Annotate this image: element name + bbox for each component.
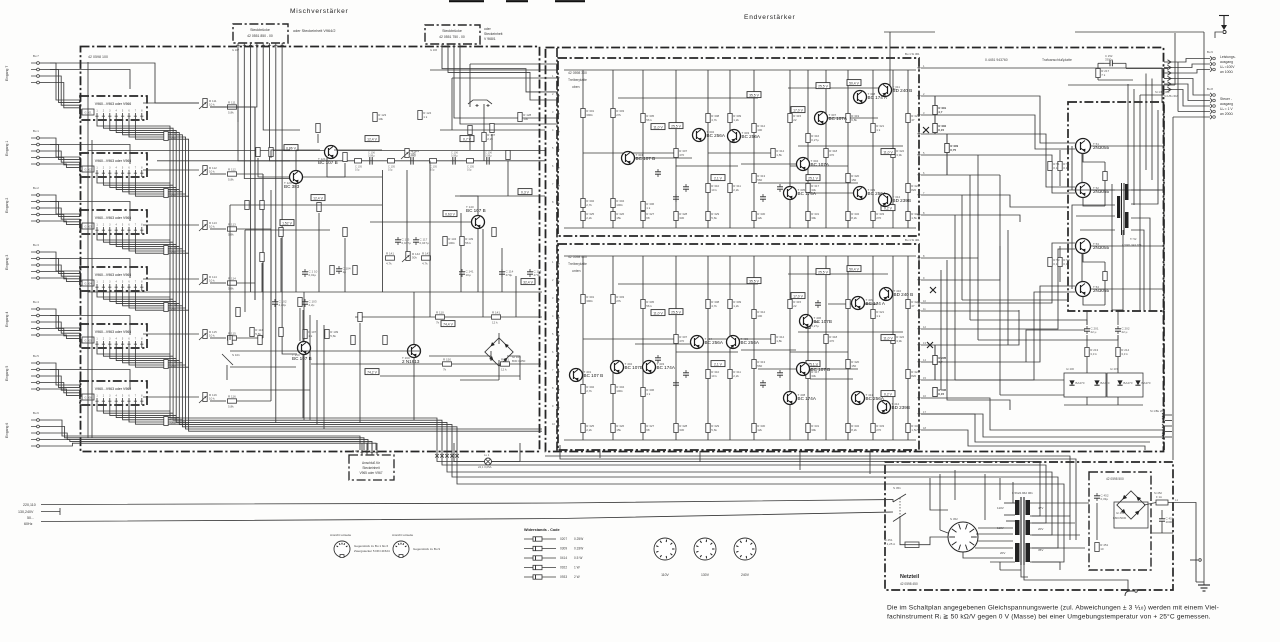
resistor R303 0.75 [945, 134, 959, 175]
svg-text:100: 100 [523, 117, 528, 121]
resistor R716 5.8k [228, 394, 237, 408]
svg-text:St 1/Bu 201: St 1/Bu 201 [1150, 409, 1165, 413]
svg-text:R 114: R 114 [228, 276, 236, 280]
svg-text:560: 560 [757, 364, 762, 368]
svg-text:1,5k: 1,5k [911, 216, 917, 220]
wire transformer taps [1068, 110, 1164, 311]
wire output stage links [1072, 146, 1164, 310]
svg-text:G 108: G 108 [352, 449, 360, 453]
svg-text:25,5 V: 25,5 V [818, 270, 829, 274]
svg-text:B30 C250: B30 C250 [512, 359, 526, 363]
wire mixer lower [230, 351, 520, 380]
svg-text:10 k: 10 k [209, 279, 215, 283]
svg-text:20V: 20V [1000, 551, 1005, 555]
board Treiberplatte oben 42 0598 300 [558, 58, 919, 236]
plug-in unit box V960/V963/V966 group 2 [80, 153, 147, 177]
level pot R116 10k [199, 393, 217, 404]
svg-text:220,110: 220,110 [23, 503, 36, 507]
wire rails driver board oben [564, 70, 916, 228]
plug jog symbol [468, 100, 492, 107]
page cut line top [449, 0, 585, 2]
svg-text:2,2k: 2,2k [487, 137, 493, 141]
module box Endverstaerker [546, 48, 1164, 452]
wire fan-in input group 1 [50, 138, 130, 167]
resistor R127 2.2k [482, 104, 496, 161]
resistor R205 4.7 [933, 345, 947, 380]
svg-text:BC 256A: BC 256A [741, 340, 760, 345]
wire bus y292 [88, 291, 542, 293]
svg-text:0.33W: 0.33W [574, 547, 583, 551]
svg-text:39k: 39k [811, 428, 816, 432]
svg-text:0,01µ: 0,01µ [309, 273, 317, 277]
svg-text:Uₐ =100V: Uₐ =100V [1220, 65, 1235, 69]
diode block BA470 [1064, 367, 1151, 397]
svg-text:35V: 35V [1038, 548, 1043, 552]
svg-text:130V: 130V [701, 573, 710, 577]
svg-text:0933: 0933 [560, 575, 567, 579]
connector Bu1 St301 pins [905, 52, 925, 217]
svg-text:240V: 240V [741, 573, 750, 577]
svg-text:42 0598 450: 42 0598 450 [900, 582, 918, 586]
svg-text:BC 174A: BC 174A [798, 191, 817, 196]
wire bundle from V-box 5 [97, 348, 189, 424]
svg-text:3,9k: 3,9k [896, 153, 902, 157]
resistor R214 3.3k [1085, 348, 1099, 357]
svg-text:Bu 5: Bu 5 [33, 354, 39, 358]
protection box right column [1163, 311, 1165, 450]
transistor T 304 BC 107A [797, 158, 830, 171]
svg-text:BA470: BA470 [1100, 381, 1109, 385]
svg-text:R 115: R 115 [228, 331, 236, 335]
wire bundle from V-box 1 [97, 120, 189, 196]
resistor R104 220k [164, 303, 178, 312]
svg-text:oder Steckeinheit V964/2: oder Steckeinheit V964/2 [293, 29, 335, 33]
wire top right runs [1068, 32, 1204, 585]
svg-text:68: 68 [646, 216, 650, 220]
resistor R111 12k [492, 310, 501, 324]
svg-text:BC 256A: BC 256A [705, 340, 724, 345]
wire selector to transformer [963, 528, 1013, 558]
emitter resistors output [1048, 162, 1060, 267]
svg-text:0,33µ: 0,33µ [1101, 497, 1109, 501]
svg-text:10µ: 10µ [430, 168, 435, 172]
svg-text:560: 560 [757, 178, 762, 182]
svg-text:R 151: R 151 [501, 357, 509, 361]
svg-text:10 k: 10 k [209, 334, 215, 338]
voltage callout 0.63V [443, 211, 457, 217]
svg-text:F 1A: F 1A [1156, 495, 1162, 499]
resistor R109 5.6k [325, 330, 339, 339]
svg-text:St 1/Bu 302: St 1/Bu 302 [1164, 94, 1178, 98]
svg-text:2,2k: 2,2k [586, 216, 592, 220]
svg-text:25,5 V: 25,5 V [818, 84, 829, 88]
pins left edge board unten [552, 260, 560, 428]
transistor T 410 BD 240 B [880, 288, 914, 301]
svg-text:820: 820 [911, 188, 916, 192]
svg-text:68: 68 [646, 428, 650, 432]
svg-text:Netzteil: Netzteil [900, 574, 920, 580]
voltage callout 12.4V [365, 369, 379, 375]
svg-text:BC 107 B: BC 107 B [466, 208, 486, 213]
svg-text:S 451: S 451 [893, 486, 901, 490]
wire bus y160 [157, 160, 545, 162]
resistor R110 7k [436, 310, 445, 324]
svg-text:1 k: 1 k [646, 206, 651, 210]
transistor T121 BC107B [318, 146, 338, 166]
mixer resistor scatter 2 [228, 266, 387, 345]
svg-text:1µ: 1µ [343, 270, 347, 274]
svg-text:R 110: R 110 [436, 310, 444, 314]
bridge rectifier Gl101 B30C250 [485, 338, 526, 366]
transistor T 411 BC 256A [852, 392, 885, 405]
svg-text:BC 383: BC 383 [284, 184, 300, 189]
svg-text:ausgang: ausgang [1220, 60, 1233, 64]
capacitor C104 1u [336, 266, 351, 274]
transistor T 401 BC 107 B [570, 369, 604, 382]
svg-text:Bu 1 St 401: Bu 1 St 401 [905, 238, 920, 242]
svg-text:12k: 12k [757, 428, 762, 432]
svg-text:50...: 50... [27, 516, 34, 520]
wire fan-in input group 2 [50, 195, 130, 224]
svg-text:Leistungs-: Leistungs- [1220, 55, 1236, 59]
svg-text:Steckeinheit: Steckeinheit [362, 466, 379, 470]
svg-text:0,08µ: 0,08µ [451, 154, 458, 158]
pins of Anschluss box [360, 450, 378, 455]
svg-text:8,2k: 8,2k [851, 216, 857, 220]
wire row 5 to level pot [143, 300, 263, 338]
svg-text:10 k: 10 k [209, 170, 215, 174]
svg-text:Bu 7: Bu 7 [33, 54, 39, 58]
title Endverstaerker [744, 14, 795, 21]
svg-text:L1: L1 [1175, 498, 1179, 502]
wire mesh driver board unten [583, 256, 908, 440]
wire row 3 to level pot [143, 225, 271, 300]
svg-text:BC 107B: BC 107B [625, 365, 643, 370]
svg-text:2,2k: 2,2k [733, 188, 739, 192]
plug bridge Steckbruecke 42 0551 850-00 [233, 24, 335, 43]
transistor T160 2N1613 [402, 345, 421, 365]
svg-text:60Hz: 60Hz [24, 522, 33, 526]
mains wire L2 [41, 512, 893, 522]
module box Netzteil 42 0598 450 [885, 462, 1173, 590]
svg-text:22 µ: 22 µ [1122, 330, 1128, 334]
svg-text:24,1 0,05A: 24,1 0,05A [478, 465, 492, 469]
svg-text:0,27µ: 0,27µ [811, 138, 819, 142]
svg-text:1 k: 1 k [423, 115, 428, 119]
svg-text:4,7k: 4,7k [422, 262, 428, 266]
voltage callouts driver board oben [651, 80, 895, 211]
svg-text:390k: 390k [586, 113, 593, 117]
wire netzteil verticals [930, 470, 1013, 533]
transistor T52 2N3055 [1076, 183, 1110, 198]
wire transformer right taps [1030, 503, 1089, 570]
svg-text:1 k: 1 k [646, 392, 651, 396]
resistor R139 56k [460, 237, 474, 246]
svg-text:10µ: 10µ [467, 168, 472, 172]
svg-text:Steckeinheit: Steckeinheit [484, 32, 503, 36]
wire fan-in input group 5 [50, 363, 130, 395]
transistor T54 2N3055 [1076, 282, 1110, 297]
svg-text:470: 470 [829, 339, 834, 343]
svg-text:100k: 100k [616, 389, 623, 393]
svg-text:2,2k: 2,2k [733, 374, 739, 378]
input connector Bu3 Eingang 3 [5, 243, 50, 279]
svg-text:10 k: 10 k [711, 188, 717, 192]
svg-text:0,15: 0,15 [938, 392, 944, 396]
capacitor C141 10u [459, 269, 474, 277]
svg-text:50k: 50k [412, 256, 417, 260]
wire rails driver board unten [564, 256, 916, 440]
svg-text:8,2k: 8,2k [851, 428, 857, 432]
wire transformer bottom [1000, 562, 1128, 590]
legend selector view 240V [734, 538, 756, 577]
svg-text:0,047µ: 0,047µ [402, 241, 412, 245]
svg-text:11,0 V: 11,0 V [883, 336, 893, 340]
svg-text:42 0551 850 - 00: 42 0551 850 - 00 [247, 34, 273, 38]
svg-text:4,7k: 4,7k [711, 118, 717, 122]
text Trafoanschlussplatte [1042, 58, 1072, 62]
svg-text:390k: 390k [586, 299, 593, 303]
svg-text:10k: 10k [378, 117, 383, 121]
footnote text line 2 [887, 613, 1211, 621]
resistor R143 4.7k [422, 251, 431, 265]
resistor R451 10 [1095, 543, 1109, 552]
svg-text:oben: oben [572, 85, 580, 89]
svg-text:25,5 V: 25,5 V [671, 124, 682, 128]
svg-text:Eingang 5: Eingang 5 [5, 366, 9, 381]
wire fan-in input group 0 [50, 63, 199, 108]
svg-text:Bu 3: Bu 3 [33, 243, 39, 247]
resistor group driver board unten [581, 295, 920, 433]
svg-text:Bu 8: Bu 8 [1207, 87, 1213, 91]
wire bundle from V-box 3 [97, 234, 189, 310]
svg-text:BC 107A: BC 107A [829, 116, 848, 121]
plug-in unit box V960/V963/V966 group 1 [80, 96, 147, 120]
svg-text:10 k: 10 k [209, 103, 215, 107]
connector Bu8 output [1207, 87, 1215, 119]
svg-text:5,8k: 5,8k [228, 178, 234, 182]
svg-text:32,4 V: 32,4 V [523, 280, 534, 284]
svg-text:10 k: 10 k [209, 225, 215, 229]
capacitor C117 0.047u [413, 237, 429, 245]
capacitor C252 3300p [1104, 54, 1126, 66]
svg-text:Anschluß für: Anschluß für [362, 461, 381, 465]
resistor R128 100 [518, 113, 532, 122]
transistor T 312 BD 239B [879, 194, 911, 207]
svg-text:oder: oder [484, 27, 492, 31]
pins left edge board oben [552, 74, 560, 206]
svg-text:R 141: R 141 [492, 310, 500, 314]
voltage callouts driver board unten [651, 266, 895, 397]
wire interconnect mid links [921, 246, 1150, 450]
capacitor C452 0.33u [1094, 493, 1109, 540]
svg-text:220k: 220k [169, 250, 176, 254]
ground symbol top right [1219, 16, 1229, 31]
transistor T 309 BC 256A [854, 187, 887, 200]
svg-text:110V: 110V [661, 573, 669, 577]
legend DIN socket view 1 [330, 533, 390, 557]
transistor T120 BC383 [284, 171, 303, 190]
svg-text:10 k: 10 k [711, 374, 717, 378]
level pot R111 10k [199, 99, 217, 110]
svg-text:BD 240 B: BD 240 B [893, 88, 913, 93]
capacitor C451 1000u [1159, 516, 1174, 524]
mains wire L1 [41, 500, 893, 505]
svg-text:42 0598 100: 42 0598 100 [88, 55, 108, 59]
svg-text:15k: 15k [616, 216, 621, 220]
svg-text:11,0 V: 11,0 V [883, 150, 893, 154]
svg-text:1,52 V: 1,52 V [282, 221, 293, 225]
svg-text:Ansicht Lötseite: Ansicht Lötseite [330, 533, 352, 537]
svg-text:Ansicht Lötseite: Ansicht Lötseite [392, 533, 414, 537]
svg-text:110V: 110V [997, 526, 1004, 530]
svg-text:150: 150 [851, 178, 856, 182]
resistor R114 5.6k [250, 328, 264, 337]
svg-text:10µ: 10µ [466, 273, 471, 277]
resistor R301 4.7 [933, 96, 947, 134]
svg-text:17,0 V: 17,0 V [793, 108, 804, 112]
voltage callout 0.86V [284, 145, 298, 151]
svg-text:BC 174 A: BC 174 A [866, 301, 886, 306]
svg-text:5,8k: 5,8k [228, 405, 234, 409]
svg-text:G 106: G 106 [430, 48, 438, 52]
level pot R115 10k [199, 330, 217, 341]
svg-text:1,5k: 1,5k [911, 428, 917, 432]
level pot R113 10k [199, 221, 217, 232]
svg-text:74,4 V: 74,4 V [443, 322, 454, 326]
svg-text:56 k: 56 k [465, 241, 471, 245]
svg-text:BC 107B: BC 107B [814, 319, 832, 324]
svg-text:fachinstrument Rᵢ ≧ 50 kΩ/V ge: fachinstrument Rᵢ ≧ 50 kΩ/V gegen 0 V (M… [887, 613, 1211, 621]
svg-text:25,1 V: 25,1 V [808, 176, 819, 180]
mains wire stub [41, 508, 60, 515]
svg-text:100k: 100k [616, 203, 623, 207]
svg-text:BC 107A: BC 107A [811, 162, 830, 167]
svg-text:Gr 207: Gr 207 [1110, 367, 1118, 371]
svg-text:2,1 V: 2,1 V [714, 176, 723, 180]
svg-text:R 143: R 143 [422, 251, 430, 255]
wire interconnect upper [921, 68, 1162, 222]
resistor R134 100k [443, 237, 457, 246]
resistor R123 10k [373, 113, 387, 122]
wire fan-in input group 4 [50, 309, 130, 338]
svg-text:Uₐ = 1 V: Uₐ = 1 V [1220, 107, 1233, 111]
wire E box bottom drops [600, 451, 870, 474]
svg-text:7k: 7k [443, 368, 447, 372]
svg-text:5,6k: 5,6k [711, 216, 717, 220]
svg-text:Widerstands - Code: Widerstands - Code [524, 528, 560, 532]
mixer resistor scatter [236, 124, 510, 337]
svg-text:470: 470 [679, 153, 684, 157]
svg-text:56 k: 56 k [646, 118, 652, 122]
svg-text:Bu 6: Bu 6 [33, 411, 39, 415]
svg-text:V960...V963 oder V966: V960...V963 oder V966 [95, 102, 131, 106]
svg-text:R 113: R 113 [228, 222, 236, 226]
transistor T 403 BC 174A [643, 361, 676, 374]
svg-text:1,8k: 1,8k [776, 153, 782, 157]
svg-text:15k: 15k [616, 428, 621, 432]
transistor T 311 BD 240 B [879, 84, 913, 97]
fuse Si452 F1A [1154, 491, 1168, 505]
svg-text:330: 330 [679, 216, 684, 220]
svg-text:12 k: 12 k [492, 321, 498, 325]
voltage callout 74V [441, 321, 455, 327]
resistor R713 5.8k [228, 222, 237, 236]
svg-text:1000µ: 1000µ [1166, 520, 1175, 524]
svg-text:820: 820 [911, 374, 916, 378]
svg-text:BC 107 B: BC 107 B [584, 373, 604, 378]
wire bus y317 [355, 316, 542, 318]
svg-text:11,0 V: 11,0 V [653, 311, 663, 315]
svg-text:Gl 451: Gl 451 [1116, 511, 1125, 515]
resistor R714 5.8k [228, 276, 237, 290]
resistor R302 0.15 [933, 124, 947, 133]
resistor R303 0.75 [945, 134, 959, 175]
transistor T 307 BC 107A [815, 112, 848, 125]
svg-text:270: 270 [876, 428, 881, 432]
svg-text:V965 oder V967: V965 oder V967 [359, 471, 382, 475]
svg-text:T 1,25 A: T 1,25 A [884, 542, 895, 546]
svg-text:Bu 4: Bu 4 [33, 300, 39, 304]
svg-text:22: 22 [793, 304, 797, 308]
title Mischverstaerker [290, 8, 349, 15]
transistor T 308 BC 174 A [854, 91, 888, 104]
capacitor group driver board oben [655, 114, 821, 202]
svg-text:1 k: 1 k [876, 128, 881, 132]
svg-text:27k: 27k [616, 299, 621, 303]
legend resistor code table [524, 528, 583, 579]
wire R217 loop [1098, 63, 1168, 80]
svg-text:35,5 V: 35,5 V [749, 279, 760, 283]
voltage callout 12.4V b [280, 195, 325, 226]
transistor T 303 BC 256A [728, 130, 761, 143]
svg-text:12,4 V: 12,4 V [313, 196, 324, 200]
svg-text:0,2 V: 0,2 V [884, 392, 893, 396]
svg-text:3300p: 3300p [1105, 58, 1113, 62]
resistor R102 220k [164, 189, 178, 198]
svg-text:56 k: 56 k [646, 304, 652, 308]
wire row 2 to level pot [143, 170, 263, 300]
resistor R712 5.8k [228, 167, 237, 181]
svg-text:Steckbrücke: Steckbrücke [250, 28, 270, 32]
svg-text:0,75: 0,75 [950, 148, 956, 152]
voltage selector S452 [948, 517, 978, 552]
module box Mischverstaerker 42 0598 100 [81, 47, 540, 452]
svg-text:4,7: 4,7 [938, 360, 943, 364]
resistor R301 4.7 [933, 96, 947, 134]
svg-text:12k: 12k [757, 216, 762, 220]
svg-text:an 100Ω: an 100Ω [1220, 70, 1233, 74]
svg-text:0,047µ: 0,047µ [420, 241, 430, 245]
svg-text:47: 47 [911, 118, 915, 122]
transistor T 404 BC 256A [691, 336, 724, 349]
svg-text:2,2µ: 2,2µ [309, 303, 315, 307]
transistor T 406 BC 107B [800, 315, 832, 328]
svg-text:2 N1613: 2 N1613 [402, 359, 420, 364]
svg-text:0,3 V: 0,3 V [521, 190, 530, 194]
wire t140 links [370, 196, 478, 292]
svg-text:BC 107 B: BC 107 B [318, 160, 338, 165]
wire interconnect lower [921, 243, 1164, 437]
svg-text:100: 100 [757, 314, 762, 318]
svg-text:470µ: 470µ [534, 273, 541, 277]
svg-text:R 111: R 111 [228, 100, 236, 104]
svg-text:39k: 39k [811, 216, 816, 220]
svg-text:0.25W: 0.25W [574, 537, 583, 541]
wire St1Bu302 down drops [1128, 74, 1164, 312]
chassis connection top right [1215, 30, 1226, 38]
svg-text:2,2k: 2,2k [586, 428, 592, 432]
